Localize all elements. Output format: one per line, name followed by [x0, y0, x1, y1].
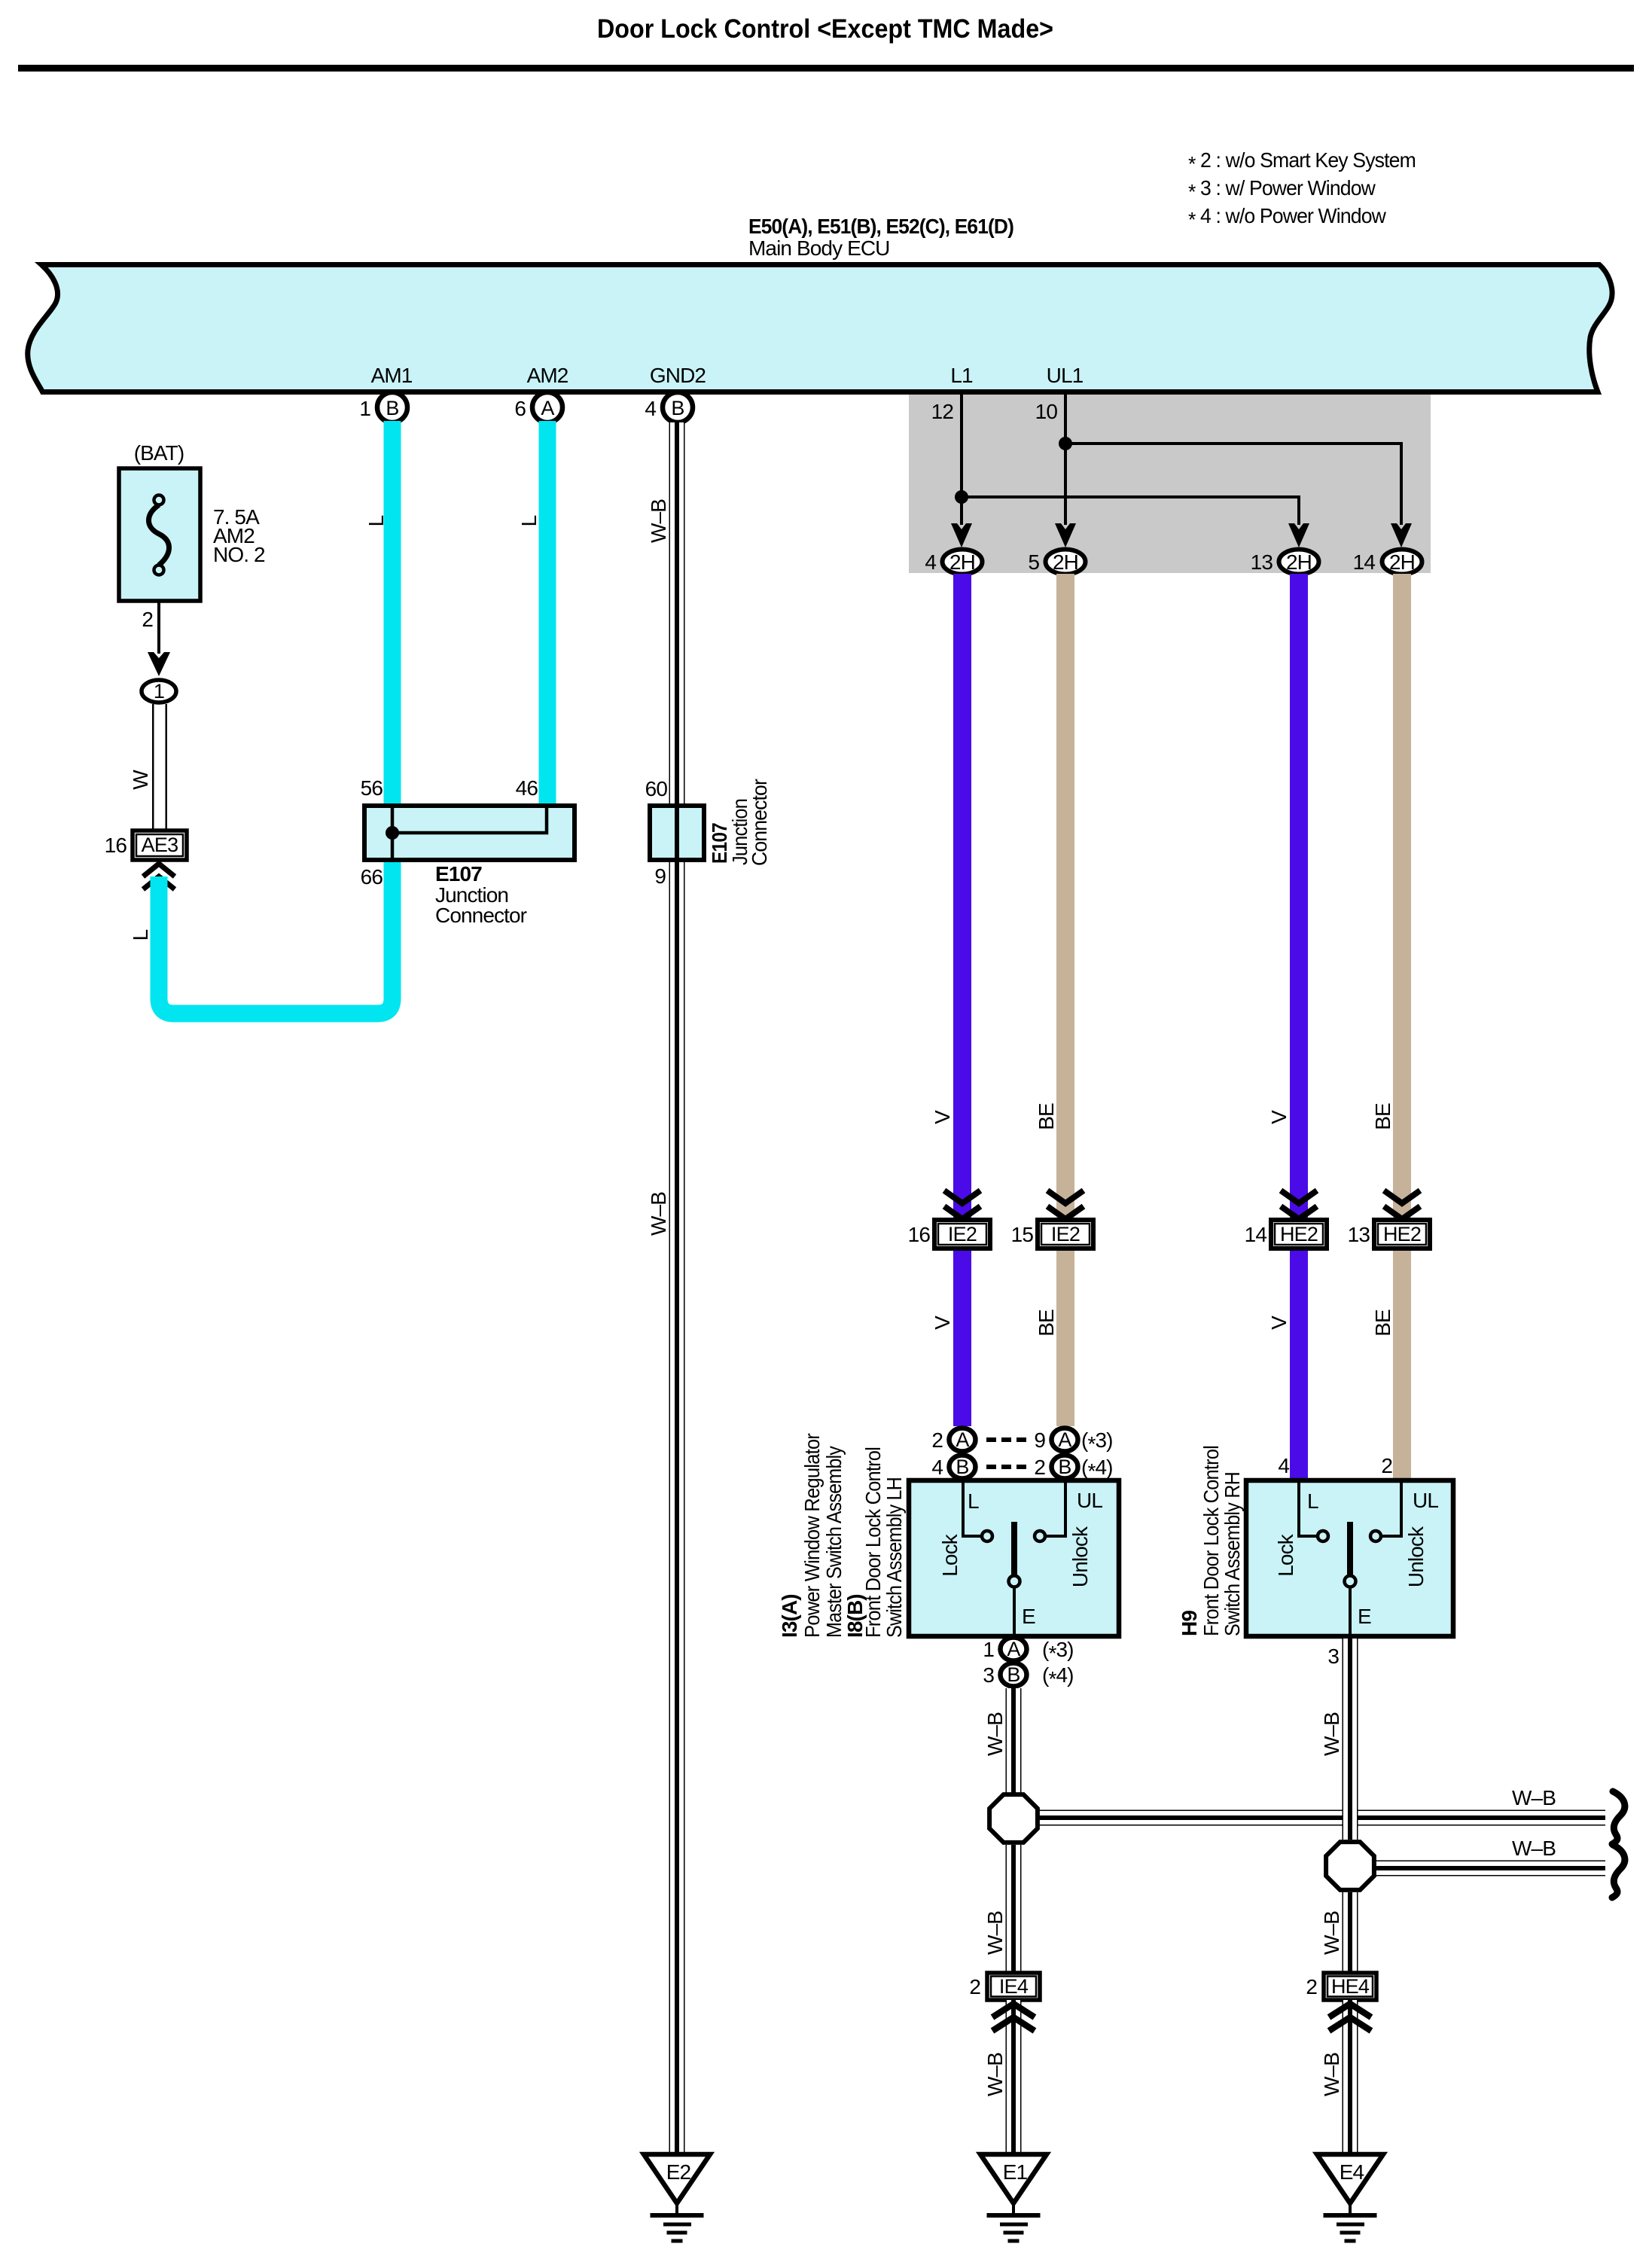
chevrons into 15-IE2	[1047, 1190, 1084, 1203]
svg-text:2H: 2H	[1389, 550, 1415, 574]
svg-text:W–B: W–B	[983, 1712, 1007, 1756]
wire from fuse pin 2	[157, 601, 160, 654]
wire BE below 13-HE2 to RH switch	[1393, 1251, 1411, 1480]
svg-text:B: B	[671, 397, 684, 419]
arrow into 4-2H	[951, 523, 972, 547]
label block H9 Front Door Lock Control Switch Assembly RH	[1178, 1446, 1244, 1636]
node junction dot on L1 wire	[955, 490, 968, 504]
svg-text:2: 2	[1034, 1456, 1045, 1479]
svg-text:4: 4	[1278, 1454, 1289, 1477]
svg-text:HE4: HE4	[1331, 1975, 1370, 1998]
svg-text:W–B: W–B	[647, 1192, 670, 1236]
wire from L1 junction to 13-2H	[962, 497, 1299, 525]
connector 15 IE2 box	[1038, 1220, 1093, 1248]
svg-text:UL: UL	[1077, 1489, 1102, 1512]
connector oval 4-B (LH lock)	[949, 1456, 976, 1479]
svg-text:W–B: W–B	[1512, 1786, 1556, 1809]
wire W-B LH from IE4 to ground E1	[1006, 2000, 1022, 2154]
dashed link row B	[986, 1465, 1030, 1469]
connector oval 4 2H	[943, 550, 983, 575]
svg-text:AM2: AM2	[527, 364, 568, 387]
svg-text:2: 2	[1306, 1975, 1317, 1998]
svg-text:10: 10	[1035, 400, 1058, 423]
svg-text:L: L	[517, 515, 541, 526]
svg-text:W–B: W–B	[1512, 1837, 1556, 1860]
svg-text:16: 16	[908, 1223, 931, 1246]
svg-text:2H: 2H	[949, 550, 975, 574]
connector 13 HE2 box	[1374, 1220, 1430, 1248]
internal wire from junction to pin 46	[392, 806, 547, 833]
wire from UL1 junction to 14-2H	[1065, 444, 1401, 525]
svg-text:I3(A): I3(A)	[778, 1594, 801, 1638]
break symbol (wire 2)	[1612, 1845, 1625, 1898]
wire L (cyan) from AM2 to E107 pin 46	[539, 421, 556, 806]
svg-text:4: 4	[925, 550, 936, 574]
svg-text:1: 1	[983, 1638, 994, 1661]
label block I3(A) Power Window Regulator Master Switch Assembly I8(B) Front Door Lock Control Switch Assembly LH	[778, 1433, 906, 1638]
wire W-B from GND2 to ground E2	[669, 422, 685, 2154]
svg-text:E50(A), E51(B), E52(C), E61(D): E50(A), E51(B), E52(C), E61(D)	[748, 215, 1013, 238]
connector oval 5 2H	[1046, 550, 1086, 575]
svg-text:13: 13	[1348, 1223, 1370, 1246]
svg-text:16: 16	[105, 834, 127, 857]
svg-text:4: 4	[931, 1456, 943, 1479]
svg-text:IE4: IE4	[999, 1975, 1029, 1998]
shield/junction gray area box	[909, 395, 1431, 573]
svg-text:W–B: W–B	[983, 2053, 1007, 2096]
RH switch lever	[1347, 1522, 1353, 1576]
switch I3(A)/I8(B) LH box	[909, 1480, 1119, 1636]
connector 2 HE4 box	[1324, 1973, 1376, 2000]
svg-text:L: L	[129, 929, 152, 940]
wire UL1 pin 10 vertical	[1064, 395, 1067, 525]
svg-text:2: 2	[931, 1428, 943, 1452]
chevrons into 13-HE2	[1384, 1190, 1420, 1203]
arrow into oval 1	[148, 652, 170, 676]
svg-text:Lock: Lock	[1274, 1533, 1297, 1576]
svg-text:1: 1	[154, 680, 164, 703]
svg-text:NO. 2: NO. 2	[213, 543, 265, 566]
connector oval 13 2H	[1279, 550, 1319, 575]
connector oval 9-A (LH unlock)	[1052, 1428, 1078, 1452]
svg-text:A: A	[1058, 1428, 1071, 1451]
svg-text:1: 1	[359, 397, 370, 420]
svg-text:H9: H9	[1178, 1611, 1201, 1636]
connector oval 2-B (LH unlock)	[1052, 1456, 1078, 1479]
svg-text:BE: BE	[1035, 1309, 1058, 1337]
junction octagon LH	[989, 1794, 1038, 1843]
wire V (violet) from 13-2H to 14-HE2	[1290, 574, 1308, 1221]
svg-text:13: 13	[1251, 550, 1273, 574]
break symbol (wire 1)	[1612, 1791, 1625, 1844]
svg-text:V: V	[1267, 1110, 1291, 1124]
svg-text:GND2: GND2	[650, 364, 706, 387]
wire BE (beige) from 5-2H to 15-IE2	[1056, 574, 1074, 1221]
wire W-B horizontal from RH octagon to right break	[1372, 1861, 1605, 1876]
svg-text:Unlock: Unlock	[1068, 1526, 1092, 1587]
ECU U1 Main Body ECU body (torn-edge bus box)	[28, 265, 1612, 392]
svg-text:Switch Assembly LH: Switch Assembly LH	[882, 1477, 906, 1638]
chevrons into 14-HE2	[1281, 1190, 1317, 1203]
connector oval 3-B (LH E)	[1001, 1663, 1027, 1687]
connector oval 14 2H	[1382, 550, 1422, 575]
wire V (violet) from 4-2H to 16-IE2	[953, 574, 971, 1221]
connector oval 1	[142, 680, 176, 703]
fuse F1 7.5A AM2 NO.2 box	[119, 468, 200, 601]
svg-text:Main Body ECU: Main Body ECU	[748, 236, 890, 260]
svg-text:14: 14	[1245, 1223, 1267, 1246]
svg-text:56: 56	[361, 776, 383, 800]
svg-text:(BAT): (BAT)	[134, 441, 184, 465]
wire W-B LH from oval 3-B to octagon	[1006, 1688, 1022, 1794]
svg-text:BE: BE	[1371, 1309, 1394, 1337]
svg-text:Front Door Lock Control: Front Door Lock Control	[861, 1447, 885, 1638]
svg-text:14: 14	[1353, 550, 1376, 574]
LH UL wire to unlock contact	[1047, 1483, 1065, 1536]
connector oval 1-A (LH E)	[1001, 1638, 1027, 1661]
wire L (cyan) from AM1 to E107 pin 56	[384, 421, 401, 806]
svg-text:UL1: UL1	[1047, 364, 1084, 387]
svg-text:60: 60	[645, 777, 668, 800]
svg-text:Front Door Lock Control: Front Door Lock Control	[1199, 1446, 1223, 1636]
svg-text:B: B	[956, 1456, 968, 1478]
svg-text:AE3: AE3	[142, 834, 178, 856]
svg-text:2: 2	[969, 1975, 980, 1998]
svg-text:2: 2	[1381, 1454, 1392, 1477]
svg-text:E1: E1	[1003, 2160, 1028, 2184]
svg-text:46: 46	[516, 776, 538, 800]
svg-text:V: V	[1267, 1315, 1291, 1330]
svg-text:BE: BE	[1371, 1103, 1394, 1130]
svg-text:E107: E107	[435, 862, 482, 886]
svg-text:12: 12	[931, 400, 954, 423]
arrow into 14-2H	[1391, 523, 1412, 547]
svg-text:Unlock: Unlock	[1404, 1526, 1428, 1587]
svg-text:* 2 : w/o Smart Key System: * 2 : w/o Smart Key System	[1188, 148, 1416, 175]
svg-text:E2: E2	[666, 2160, 691, 2184]
svg-text:Connector: Connector	[748, 779, 771, 866]
svg-text:* 3 : w/ Power Window: * 3 : w/ Power Window	[1188, 176, 1376, 203]
svg-text:IE2: IE2	[948, 1223, 977, 1245]
svg-text:6: 6	[514, 397, 526, 420]
ground E2	[644, 2154, 710, 2243]
svg-text:2H: 2H	[1286, 550, 1312, 574]
svg-text:HE2: HE2	[1383, 1223, 1421, 1245]
svg-text:W–B: W–B	[983, 1911, 1007, 1955]
RH UL wire to unlock contact	[1382, 1483, 1401, 1536]
svg-text:66: 66	[361, 865, 383, 889]
svg-text:(*3): (*3)	[1042, 1638, 1074, 1665]
wire W-B RH from HE4 to ground E4	[1343, 2000, 1358, 2154]
wire W-B RH from switch E to octagon	[1343, 1639, 1358, 1840]
LH unlock contact	[1035, 1531, 1045, 1541]
svg-text:2H: 2H	[1053, 550, 1078, 574]
svg-text:AM1: AM1	[371, 364, 413, 387]
wire V below 14-HE2 to RH switch	[1290, 1251, 1308, 1480]
pin circle GND2 4-B	[663, 392, 693, 422]
connector oval 2-A (LH lock)	[949, 1428, 976, 1452]
svg-text:9: 9	[654, 864, 666, 888]
svg-text:E4: E4	[1340, 2160, 1364, 2184]
wire W (white) from oval 1 to AE3	[152, 704, 154, 831]
junction octagon RH	[1326, 1842, 1374, 1890]
svg-text:L1: L1	[950, 364, 973, 387]
svg-text:UL: UL	[1413, 1489, 1438, 1512]
arrow into 5-2H	[1055, 523, 1076, 547]
svg-text:B: B	[1058, 1456, 1071, 1478]
svg-text:E: E	[1022, 1605, 1035, 1628]
wire W-B horizontal from LH octagon to right break	[1036, 1810, 1605, 1826]
svg-text:9: 9	[1034, 1428, 1045, 1452]
svg-text:L: L	[1307, 1489, 1318, 1513]
svg-text:A: A	[956, 1428, 969, 1451]
wire L (cyan) elbow from AE3 to AM1 wire	[159, 862, 392, 1014]
svg-text:15: 15	[1011, 1223, 1034, 1246]
LH lock contact	[982, 1531, 992, 1541]
svg-text:BE: BE	[1035, 1103, 1058, 1130]
svg-text:Connector: Connector	[435, 904, 527, 927]
receptacle chevrons below HE4	[1329, 2004, 1371, 2017]
wire V below 16-IE2	[953, 1251, 971, 1426]
ground E4	[1317, 2154, 1383, 2243]
svg-text:W–B: W–B	[1320, 2053, 1343, 2096]
pin circle AM1 1-B	[377, 392, 407, 422]
svg-text:Lock: Lock	[938, 1533, 962, 1576]
svg-text:W–B: W–B	[1320, 1911, 1343, 1955]
svg-text:Switch Assembly RH: Switch Assembly RH	[1221, 1472, 1244, 1636]
chevrons into 16-IE2	[944, 1190, 980, 1203]
wire BE (beige) from 14-2H to 13-HE2	[1393, 574, 1411, 1221]
svg-text:5: 5	[1028, 550, 1039, 574]
svg-text:3: 3	[983, 1663, 994, 1687]
wire BE below 15-IE2	[1056, 1251, 1074, 1426]
connector 16 IE2 box	[934, 1220, 990, 1248]
connector 14 HE2 box	[1271, 1220, 1327, 1248]
svg-text:B: B	[386, 397, 398, 419]
svg-text:B: B	[1007, 1663, 1020, 1686]
svg-text:Power Window Regulator: Power Window Regulator	[800, 1433, 824, 1638]
svg-text:Door Lock Control <Except TMC: Door Lock Control <Except TMC Made>	[597, 14, 1053, 44]
svg-text:V: V	[931, 1315, 954, 1330]
svg-text:(*3): (*3)	[1081, 1428, 1113, 1456]
internal wire through E107 pin 56 to 66	[391, 806, 395, 860]
svg-text:4: 4	[645, 397, 656, 420]
svg-text:* 4 : w/o Power Window: * 4 : w/o Power Window	[1188, 204, 1387, 231]
svg-text:W–B: W–B	[647, 499, 670, 543]
svg-text:L: L	[364, 515, 388, 526]
junction connector E107 (56/46/66) box	[364, 806, 575, 860]
svg-text:(*4): (*4)	[1042, 1663, 1074, 1690]
svg-text:IE2: IE2	[1051, 1223, 1080, 1245]
receptacle chevrons below AE3	[143, 864, 175, 876]
svg-text:W: W	[129, 770, 152, 790]
ground E1	[980, 2154, 1047, 2243]
junction connector E107 (60/9) box	[650, 806, 704, 860]
LH L wire to lock contact	[963, 1483, 980, 1536]
RH L wire to lock contact	[1299, 1483, 1316, 1536]
svg-text:HE2: HE2	[1280, 1223, 1318, 1245]
wire W-B LH from octagon to IE4	[1006, 1845, 1022, 1973]
svg-text:V: V	[931, 1110, 954, 1124]
RH lock contact	[1318, 1531, 1328, 1541]
wire L1 pin 12 vertical	[960, 395, 963, 525]
receptacle chevrons below IE4	[992, 2004, 1035, 2017]
fuse element symbol	[149, 505, 169, 566]
title underline rule	[18, 65, 1634, 72]
pin circle AM2 6-A	[532, 392, 562, 422]
dashed link row A	[986, 1437, 1030, 1442]
svg-text:Master Switch Assembly: Master Switch Assembly	[822, 1446, 846, 1638]
svg-text:E: E	[1358, 1605, 1371, 1628]
svg-text:A: A	[541, 397, 554, 419]
svg-text:3: 3	[1327, 1645, 1339, 1668]
connector 2 IE4 box	[987, 1973, 1040, 2000]
LH switch lever	[1011, 1522, 1017, 1576]
svg-text:A: A	[1007, 1638, 1020, 1660]
node junction dot inside E107	[386, 826, 399, 840]
arrow into 13-2H	[1288, 523, 1309, 547]
node junction dot on UL1 wire	[1059, 437, 1072, 450]
svg-text:W–B: W–B	[1320, 1712, 1343, 1756]
svg-text:2: 2	[142, 608, 153, 631]
svg-text:L: L	[968, 1489, 979, 1513]
wire W-B RH from octagon to HE4	[1343, 1892, 1358, 1973]
connector 16 AE3 box	[133, 831, 187, 860]
RH unlock contact	[1370, 1531, 1381, 1541]
switch H9 RH box	[1246, 1480, 1453, 1636]
